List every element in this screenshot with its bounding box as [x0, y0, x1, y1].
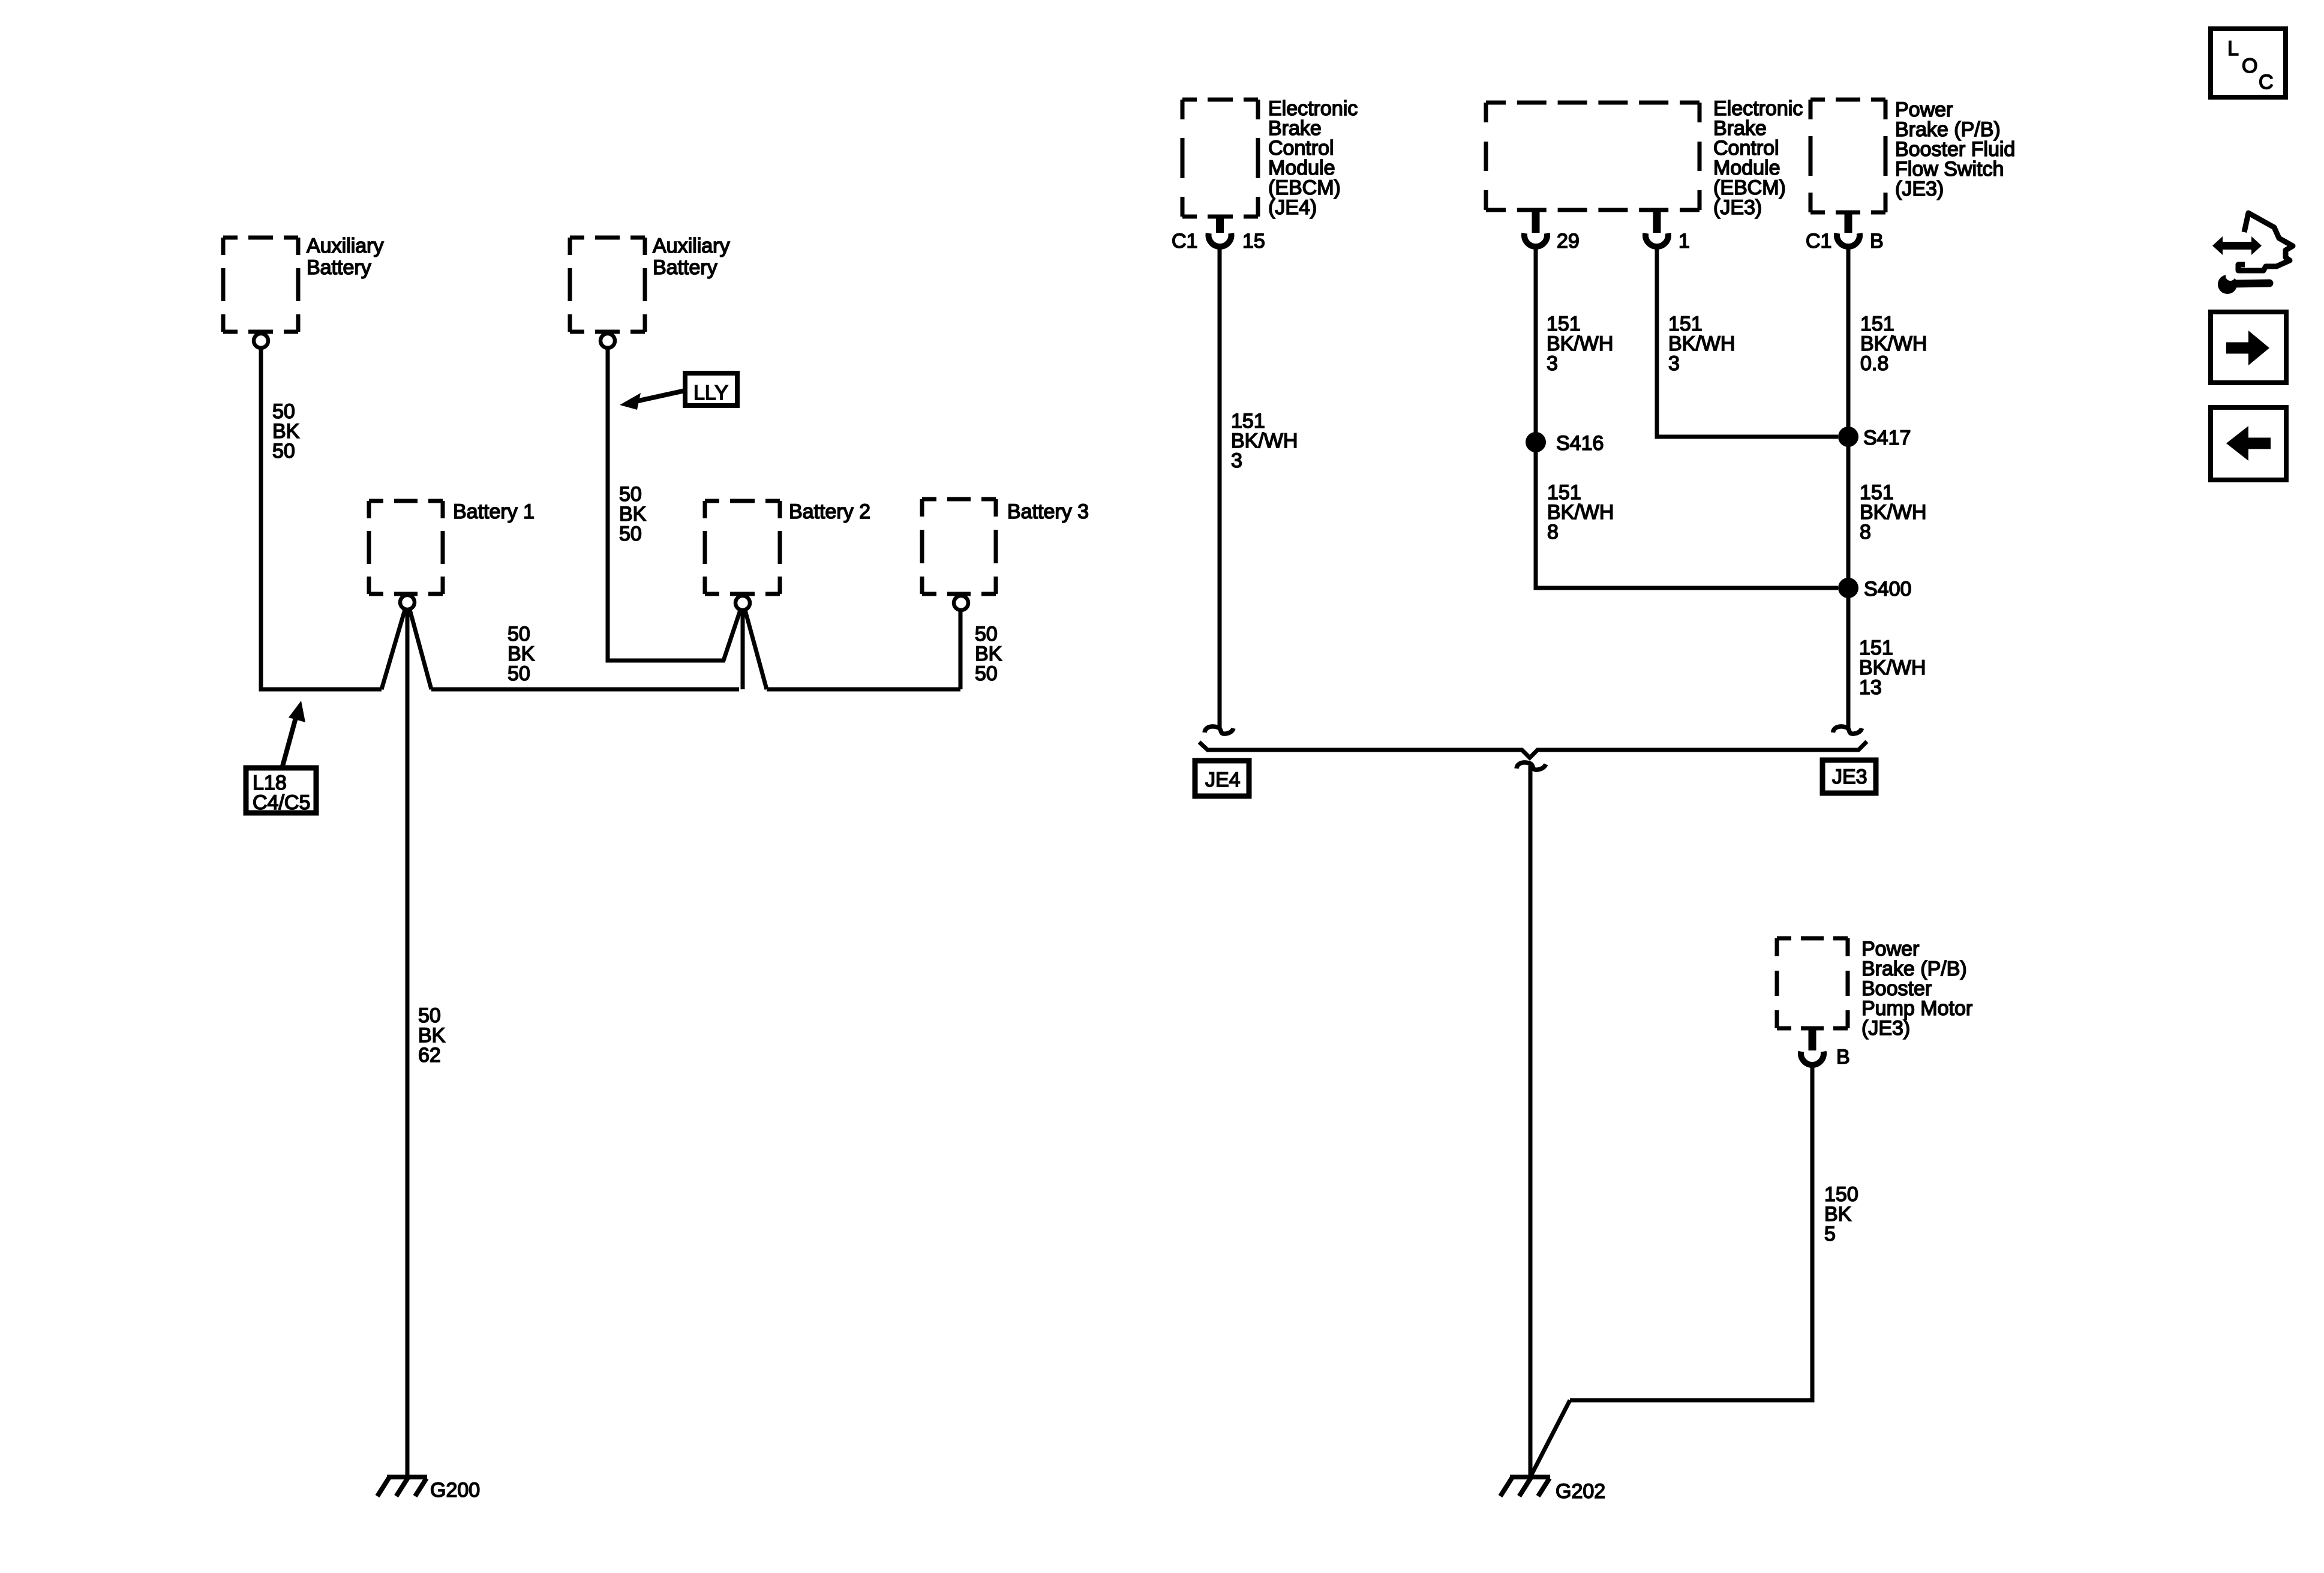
wire label 150 BK 5	[1824, 1183, 1858, 1245]
svg-text:(JE3): (JE3)	[1861, 1017, 1910, 1040]
pin label B (pump motor)	[1836, 1046, 1850, 1068]
label Power Brake (P/B) Booster Fluid Flow Switch (JE3)	[1895, 98, 2015, 200]
label S416	[1556, 432, 1604, 455]
svg-text:C: C	[2259, 71, 2274, 94]
svg-text:JE3: JE3	[1832, 766, 1867, 788]
connector cup pin 29	[1524, 233, 1547, 247]
terminal ring battery 2	[735, 596, 750, 610]
L18 C4/C5 callout box	[246, 768, 316, 814]
svg-text:S417: S417	[1863, 427, 1911, 449]
JE3 splice pack tag box	[1822, 760, 1876, 793]
wire label 151 BK/WH 3 (JE4 pin 15)	[1231, 410, 1298, 472]
svg-text:0.8: 0.8	[1860, 352, 1888, 375]
svg-text:3: 3	[1547, 352, 1558, 375]
connector stub EBCM JE3 pin 29	[1532, 210, 1540, 233]
terminal ring auxiliary battery 1	[254, 334, 268, 348]
wire 50 BK 62 battery 1 down to G200	[406, 610, 410, 1475]
ground G202	[1500, 1477, 1605, 1503]
wire end hook at JE4 splice pack	[1205, 727, 1233, 734]
ground bus wire between battery 1 and battery 2	[431, 688, 739, 692]
wire label 151 BK/WH 0.8 (pin B)	[1860, 313, 1927, 375]
svg-text:50: 50	[619, 523, 642, 545]
battery 2 (dashed component box)	[705, 501, 780, 594]
label Auxiliary Battery 1	[307, 235, 383, 279]
connector stub EBCM JE3 pin 1	[1653, 210, 1661, 233]
Power Brake Booster Pump Motor dashed box	[1777, 938, 1848, 1028]
connector stub pump motor pin B	[1809, 1028, 1816, 1050]
wire 50 BK from auxiliary battery 1 down to ground bus	[261, 349, 382, 689]
wire label 151 BK/WH 8 (below S417)	[1860, 481, 1926, 544]
pin label 15	[1242, 230, 1265, 253]
EBCM (JE3) dashed module box	[1486, 103, 1700, 210]
svg-text:62: 62	[418, 1044, 441, 1067]
svg-text:13: 13	[1859, 676, 1882, 699]
wire 151 BK/WH 3 from pin 1 to splice S417	[1657, 248, 1838, 437]
svg-text:(JE3): (JE3)	[1895, 178, 1944, 200]
label Electronic Brake Control Module (EBCM) (JE3)	[1713, 97, 1803, 219]
svg-text:8: 8	[1860, 521, 1871, 544]
L18 callout arrow pointing to bus wire	[283, 701, 305, 766]
label S417	[1863, 427, 1911, 449]
back navigation arrow box	[2211, 407, 2286, 480]
wire 151 BK/WH 3 from EBCM JE4 pin 15 down to JE4 splice pack	[1218, 248, 1222, 728]
wire label 151 BK/WH 3 (pin 1)	[1668, 313, 1735, 375]
EBCM (JE4) dashed module box	[1182, 100, 1258, 217]
wire 151 BK/WH 0.8 from pin B down through S417 and S400 to JE3 splice pack	[1846, 248, 1851, 728]
svg-text:O: O	[2242, 55, 2257, 77]
pin label B	[1870, 230, 1884, 253]
svg-text:S400: S400	[1864, 578, 1911, 601]
pin label 29	[1557, 230, 1580, 253]
label S400	[1864, 578, 1911, 601]
connector cup pump motor pin B	[1801, 1052, 1824, 1065]
svg-text:Battery 2: Battery 2	[789, 500, 870, 523]
svg-text:50: 50	[272, 440, 295, 463]
svg-text:B: B	[1836, 1046, 1850, 1068]
svg-text:S416: S416	[1556, 432, 1604, 455]
wire label 151 BK/WH 8 (below S416)	[1547, 481, 1614, 544]
wire label 50 BK 50 (aux battery 1)	[272, 400, 300, 463]
forward navigation arrow box	[2211, 312, 2286, 383]
svg-text:Battery 1: Battery 1	[453, 500, 535, 523]
svg-text:50: 50	[508, 662, 530, 685]
battery 2 right splice leg	[745, 610, 767, 689]
splice S416	[1526, 432, 1546, 452]
ground bus wire between battery 2 and battery 3	[767, 688, 960, 692]
diagonal wire joining pump motor wire to ground G202	[1532, 1400, 1570, 1475]
connector label C1 (flow switch)	[1806, 230, 1831, 253]
terminal ring auxiliary battery 2	[600, 334, 615, 348]
svg-text:1: 1	[1679, 230, 1690, 253]
svg-text:C1: C1	[1172, 230, 1197, 253]
splice S417	[1838, 427, 1858, 447]
splice pack bus with end hooks and center tap	[1199, 742, 1867, 770]
svg-text:(JE3): (JE3)	[1713, 196, 1762, 219]
svg-text:C1: C1	[1806, 230, 1831, 253]
connector cup pin 1	[1646, 233, 1668, 247]
terminal ring battery 3	[954, 596, 968, 610]
battery 3 (dashed component box)	[922, 499, 996, 594]
wire 151 BK/WH 3 from pin 29 down through S416 to S400	[1536, 248, 1838, 588]
wire label 50 BK 50 (battery 3)	[975, 623, 1002, 685]
svg-text:15: 15	[1242, 230, 1265, 253]
wire 50 BK from auxiliary battery 2 to battery 2 terminal	[608, 349, 740, 661]
svg-text:(JE4): (JE4)	[1268, 196, 1317, 219]
svg-text:8: 8	[1547, 521, 1559, 544]
svg-text:Battery: Battery	[307, 256, 371, 279]
wire label 151 BK/WH 13 (below S400)	[1859, 637, 1926, 699]
label Power Brake (P/B) Booster Pump Motor (JE3)	[1861, 938, 1972, 1040]
svg-text:3: 3	[1231, 449, 1242, 472]
battery 3 drop wire to bus end	[959, 610, 963, 689]
splice S400	[1838, 578, 1858, 598]
label Battery 3	[1007, 500, 1089, 523]
svg-text:LLY: LLY	[693, 382, 728, 404]
component view icon (part outline with double arrow and wrench)	[2212, 213, 2293, 294]
JE4 splice pack tag box	[1195, 761, 1249, 796]
label Battery 1	[453, 500, 535, 523]
svg-text:C4/C5: C4/C5	[253, 791, 310, 814]
wire label 151 BK/WH 3 (pin 29)	[1547, 313, 1613, 375]
svg-text:G202: G202	[1556, 1480, 1605, 1503]
svg-text:Battery: Battery	[653, 256, 717, 279]
connector cup C1 pin B	[1837, 233, 1860, 247]
svg-text:G200: G200	[430, 1479, 480, 1502]
connector stub flow switch pin B	[1845, 212, 1852, 233]
wire end hook at JE3 splice pack	[1833, 727, 1862, 734]
label Auxiliary Battery 2	[653, 235, 729, 279]
terminal ring battery 1	[400, 595, 415, 610]
pin label 1	[1679, 230, 1690, 253]
svg-text:5: 5	[1824, 1223, 1836, 1245]
svg-text:Auxiliary: Auxiliary	[307, 235, 383, 257]
svg-text:Battery 3: Battery 3	[1007, 500, 1089, 523]
wire label 50 BK 50 (bus mid)	[508, 623, 535, 685]
auxiliary battery 2 (dashed component box)	[570, 238, 645, 332]
svg-text:29: 29	[1557, 230, 1580, 253]
battery 2 drop wire to bus	[741, 610, 745, 689]
label Battery 2	[789, 500, 870, 523]
svg-text:Auxiliary: Auxiliary	[653, 235, 729, 257]
label Electronic Brake Control Module (EBCM) (JE4)	[1268, 97, 1358, 219]
ground G200	[377, 1477, 480, 1502]
connector stub EBCM JE4 pin 15	[1216, 217, 1224, 233]
svg-text:B: B	[1870, 230, 1884, 253]
LLY callout arrow pointing to aux battery 2 wire	[620, 391, 685, 410]
connector label C1 (JE4)	[1172, 230, 1197, 253]
connector cup C1 pin 15	[1209, 233, 1232, 247]
svg-text:50: 50	[975, 662, 998, 685]
svg-text:JE4: JE4	[1205, 769, 1241, 791]
auxiliary battery 1 (dashed component box)	[223, 238, 298, 332]
splice legs at battery 1 terminal	[382, 610, 405, 689]
LLY engine callout box	[685, 373, 737, 406]
Power Brake Booster Fluid Flow Switch dashed box	[1810, 100, 1885, 212]
battery 1 (dashed component box)	[369, 501, 443, 594]
svg-text:3: 3	[1668, 352, 1680, 375]
LOC legend icon box	[2211, 29, 2286, 97]
wire label 50 BK 62	[418, 1004, 446, 1067]
wire from splice pack center tap down to G202	[1529, 766, 1533, 1475]
wire 150 BK 5 from pump motor to G202	[1570, 1067, 1812, 1400]
svg-text:L: L	[2227, 37, 2239, 60]
wire label 50 BK 50 (aux battery 2)	[619, 483, 647, 545]
